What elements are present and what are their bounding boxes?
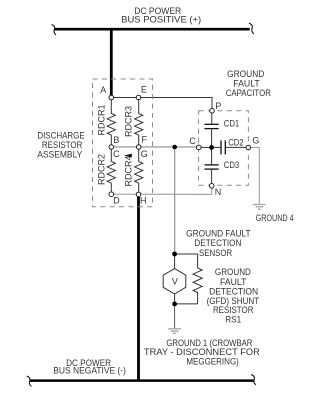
node E xyxy=(136,95,141,100)
node D xyxy=(109,192,114,197)
node P xyxy=(210,108,215,113)
resistor RDCR3 xyxy=(135,98,143,148)
bus break mark left bottom xyxy=(27,376,32,386)
voltmeter V branch xyxy=(174,254,176,269)
svg-text:SENSOR: SENSOR xyxy=(199,248,233,258)
svg-text:P: P xyxy=(215,101,221,111)
svg-text:RDCR1: RDCR1 xyxy=(97,104,107,135)
node A xyxy=(109,95,114,100)
svg-text:BUS NEGATIVE (-): BUS NEGATIVE (-) xyxy=(53,365,126,375)
bus break mark right xyxy=(249,23,254,34)
svg-text:B: B xyxy=(113,135,119,145)
svg-text:GROUND: GROUND xyxy=(215,267,251,277)
wire bottom dot to ground 1 xyxy=(174,304,176,329)
node C xyxy=(197,145,202,150)
svg-text:CD2: CD2 xyxy=(228,137,243,147)
resistor RDCR2 xyxy=(107,147,115,194)
node H xyxy=(136,192,141,197)
junction dot in capacitor box xyxy=(209,145,214,150)
ground 4 symbol xyxy=(253,205,266,210)
svg-text:N: N xyxy=(215,187,222,197)
top bus DC positive xyxy=(54,28,250,31)
svg-text:RS1: RS1 xyxy=(225,315,241,325)
wire D-H-N row (gray) xyxy=(111,186,211,195)
wire A-E-P top run xyxy=(111,98,212,111)
svg-text:DETECTION: DETECTION xyxy=(194,238,241,248)
svg-text:GROUND: GROUND xyxy=(227,69,265,79)
junction dot sensor bottom xyxy=(172,302,177,307)
resistor RDCR4 xyxy=(135,147,143,194)
wire G to ground4 (gray) xyxy=(248,148,259,204)
svg-text:CD3: CD3 xyxy=(224,160,239,170)
resistor RS1 zigzag xyxy=(193,268,202,304)
node G xyxy=(246,145,251,150)
wire junction down to sensor (gray) xyxy=(174,147,176,254)
junction dot sensor top xyxy=(172,252,177,257)
svg-text:GROUND FAULT: GROUND FAULT xyxy=(186,228,251,238)
small arrow cursor xyxy=(124,154,132,158)
discharge resistor assembly dashed box xyxy=(93,79,153,207)
capacitor CD3 xyxy=(211,147,213,165)
bus break mark right bottom xyxy=(251,374,256,384)
svg-text:RDCR3: RDCR3 xyxy=(124,106,134,137)
voltmeter hexagon xyxy=(163,269,186,294)
svg-text:H: H xyxy=(140,196,147,206)
wire C to junction (dark) xyxy=(199,146,212,148)
svg-text:E: E xyxy=(141,85,147,95)
svg-text:A: A xyxy=(100,85,106,95)
svg-text:C: C xyxy=(113,149,120,159)
capacitor CD1 xyxy=(211,113,213,124)
svg-text:RDCR2: RDCR2 xyxy=(97,154,107,185)
ground 1 symbol xyxy=(168,329,181,334)
capacitor CD2 xyxy=(212,146,221,148)
resistor RDCR1 xyxy=(107,98,115,148)
svg-text:C: C xyxy=(189,136,196,146)
svg-text:ASSEMBLY: ASSEMBLY xyxy=(37,149,82,159)
svg-text:FAULT: FAULT xyxy=(233,78,260,88)
svg-text:F: F xyxy=(142,135,148,145)
svg-text:MEGGERING): MEGGERING) xyxy=(186,357,239,367)
svg-text:V: V xyxy=(172,276,178,286)
sensor branch: top dot right to RS1 xyxy=(175,254,198,268)
wire RS1 bottom to sensor bottom dot xyxy=(175,303,198,305)
svg-text:FAULT: FAULT xyxy=(220,277,247,287)
svg-text:BUS POSITIVE (+): BUS POSITIVE (+) xyxy=(121,14,201,24)
junction dot row B-F xyxy=(172,145,177,150)
svg-text:CAPACITOR: CAPACITOR xyxy=(226,88,272,98)
wire B to C row (gray) xyxy=(111,146,199,148)
svg-text:GROUND 4: GROUND 4 xyxy=(256,213,294,223)
svg-text:CD1: CD1 xyxy=(224,118,239,128)
svg-text:RDCR4: RDCR4 xyxy=(124,155,134,186)
node F/G xyxy=(136,145,141,150)
svg-text:G: G xyxy=(141,149,148,159)
node N xyxy=(209,184,214,189)
thick feeder from bus to node A xyxy=(110,29,113,96)
svg-text:G: G xyxy=(252,136,259,146)
bottom bus DC negative xyxy=(30,379,255,382)
svg-text:D: D xyxy=(113,195,120,205)
ground fault capacitor dashed box xyxy=(199,111,249,186)
node B/C xyxy=(109,145,114,150)
wire voltmeter bottom to sensor bottom dot xyxy=(174,294,176,304)
thick feeder from node H to bottom bus xyxy=(137,197,140,381)
bus break mark left xyxy=(52,25,57,36)
